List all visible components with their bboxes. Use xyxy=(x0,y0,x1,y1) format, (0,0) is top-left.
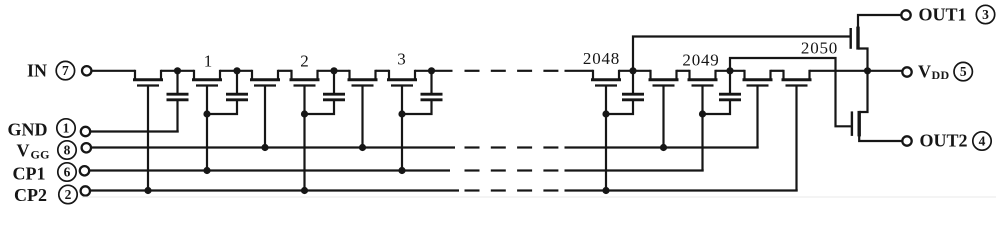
wire main-chain segment 13 xyxy=(810,70,903,72)
wire VGG rail right xyxy=(565,146,759,148)
transistor Q1 stage 1 (gate to CP1) xyxy=(192,70,222,171)
transistor Q3 stage 3 (gate to CP1) xyxy=(387,70,417,171)
wire main-chain segment 3 xyxy=(220,70,252,72)
wire main-chain segment 2 xyxy=(161,70,194,72)
junction C2048/Q2048 lead xyxy=(602,110,609,117)
svg-text:2050: 2050 xyxy=(801,39,838,58)
svg-text:2: 2 xyxy=(300,52,309,71)
junction Q0 gate / CP2 xyxy=(144,187,151,194)
junction Q2048 gate / CP2 xyxy=(602,187,609,194)
svg-text:3: 3 xyxy=(982,7,989,22)
wire main-chain segment 8 xyxy=(565,70,594,72)
wire VGG rail dashed break xyxy=(465,146,559,148)
wire main-chain segment 9 xyxy=(619,70,651,72)
svg-text:DD: DD xyxy=(932,68,950,82)
label stage 3 xyxy=(397,50,406,69)
junction Q1 gate / CP1 xyxy=(203,167,210,174)
transistor Q2048 stage 2048 (gate to CP2) xyxy=(591,70,621,191)
wire main-chain segment 5 xyxy=(318,70,350,72)
input terminal IN pin 7 xyxy=(27,61,91,81)
junction QB2048 gate / VGG xyxy=(660,144,667,151)
label stage 2049 xyxy=(682,51,719,70)
svg-text:7: 7 xyxy=(62,63,69,78)
op transistor Q-OUT1 (source follower upper) xyxy=(851,15,902,71)
svg-text:CP2: CP2 xyxy=(14,185,47,205)
transistor Q2050 stage 2050 (gate to CP2) xyxy=(782,70,812,191)
capacitor C2048 xyxy=(606,71,644,114)
junction node E (after Q2048) xyxy=(629,67,636,74)
junction C2/Q2 lead xyxy=(301,110,308,117)
svg-text:8: 8 xyxy=(64,143,71,158)
label stage 2 xyxy=(300,52,309,71)
terminal CP1 pin 6 xyxy=(13,163,90,184)
label stage 2050 xyxy=(801,39,838,58)
svg-text:V: V xyxy=(17,141,30,161)
transistor Q2 stage 2 (gate to CP2) xyxy=(290,70,320,191)
junction node C (after Q2) xyxy=(330,67,337,74)
svg-text:3: 3 xyxy=(397,50,406,69)
svg-text:4: 4 xyxy=(979,134,986,149)
transistor QB2048 VGG bias FET xyxy=(649,70,679,148)
svg-text:6: 6 xyxy=(64,165,71,180)
junction C3/Q3 lead xyxy=(398,110,405,117)
wire CP2 rail right xyxy=(565,189,798,191)
svg-text:OUT2: OUT2 xyxy=(920,130,968,150)
junction VDD node xyxy=(864,67,871,74)
wire CP2 rail left xyxy=(90,189,459,191)
output terminal OUT1 pin 3 xyxy=(901,5,994,25)
wire VGG rail left xyxy=(91,146,455,148)
junction node B (after Q1) xyxy=(233,67,240,74)
svg-text:OUT1: OUT1 xyxy=(919,5,967,25)
svg-text:GND: GND xyxy=(8,120,48,140)
junction node A (after Q0) xyxy=(174,67,181,74)
terminal VGG pin 8 xyxy=(17,141,92,162)
terminal GND pin 1 xyxy=(8,119,91,140)
transistor Q2049 stage 2049 (gate to CP1) xyxy=(688,70,718,171)
svg-text:V: V xyxy=(918,62,931,82)
label stage 2048 xyxy=(583,49,620,68)
scan artifact faint line xyxy=(82,196,996,198)
label stage 1 xyxy=(204,52,213,71)
transistor QB2049 VGG bias FET xyxy=(743,70,773,148)
wire GND rail xyxy=(90,130,179,132)
capacitor C1 xyxy=(207,71,248,114)
svg-text:IN: IN xyxy=(27,61,47,81)
junction C2049/Q2049 lead xyxy=(699,110,706,117)
wire main-chain segment 7 xyxy=(415,70,453,72)
junction C1/Q1 lead xyxy=(203,110,210,117)
wire main-chain segment 6 xyxy=(376,70,390,72)
capacitor C2 xyxy=(305,71,346,114)
capacitor C2049 xyxy=(703,71,742,114)
wire CP1 rail right xyxy=(565,169,704,171)
transistor Q-OUT2 (source follower lower) xyxy=(852,71,902,141)
svg-text:1: 1 xyxy=(63,121,70,136)
capacitor C3 xyxy=(402,71,443,114)
junction QB1 gate / VGG xyxy=(261,144,268,151)
wire OUT1 gate tap xyxy=(633,37,850,71)
transistor Q0 (input sampler, gate to CP2) xyxy=(133,70,163,191)
junction node F (after Q2049) xyxy=(726,67,733,74)
svg-text:2049: 2049 xyxy=(682,51,719,70)
svg-text:GG: GG xyxy=(31,148,50,162)
svg-text:2048: 2048 xyxy=(583,49,620,68)
terminal CP2 pin 2 xyxy=(14,185,90,205)
wire CP2 rail dashed break xyxy=(465,189,559,191)
wire main-chain segment 11 xyxy=(716,70,745,72)
wire main-chain segment 10 xyxy=(677,70,690,72)
terminal VDD pin 5 xyxy=(902,62,972,83)
svg-text:2: 2 xyxy=(65,187,72,202)
wire CP1 rail dashed break xyxy=(465,169,559,171)
svg-text:1: 1 xyxy=(204,52,213,71)
svg-text:5: 5 xyxy=(960,64,967,79)
svg-text:CP1: CP1 xyxy=(13,164,46,184)
wire CP1 rail left xyxy=(89,169,450,171)
wire OUT2 gate tap xyxy=(730,58,851,126)
capacitor C0 (to GND) xyxy=(167,71,189,133)
wire main-chain segment 12 xyxy=(771,70,784,72)
transistor QB1 VGG bias FET xyxy=(250,70,280,148)
junction node D (after Q3) xyxy=(428,67,435,74)
junction QB2 gate / VGG xyxy=(359,144,366,151)
junction Q2 gate / CP2 xyxy=(301,187,308,194)
junction Q3 gate / CP1 xyxy=(398,167,405,174)
wire main-chain segment 4 xyxy=(278,70,292,72)
wire main-chain segment 1 xyxy=(92,70,136,72)
wire main-chain dashed break xyxy=(465,70,559,72)
output terminal OUT2 pin 4 xyxy=(902,130,991,150)
transistor QB2 VGG bias FET xyxy=(348,70,378,148)
